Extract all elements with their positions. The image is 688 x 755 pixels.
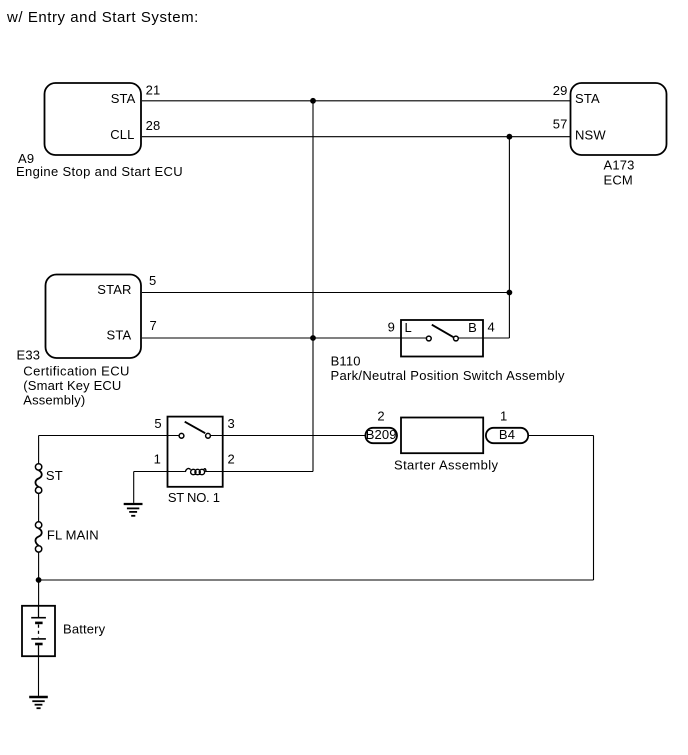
ECM A173 box xyxy=(571,83,667,155)
svg-text:5: 5 xyxy=(149,273,156,288)
svg-text:29: 29 xyxy=(553,83,568,98)
svg-text:28: 28 xyxy=(146,118,161,133)
svg-text:A173: A173 xyxy=(604,158,635,173)
svg-text:NSW: NSW xyxy=(575,127,606,142)
svg-text:21: 21 xyxy=(146,83,161,98)
wire: battery negative to ground xyxy=(38,658,40,696)
svg-text:Certification ECU: Certification ECU xyxy=(23,364,130,379)
junction: STAR wire meets vertical at x=509.4 xyxy=(507,290,513,296)
svg-text:2: 2 xyxy=(228,451,235,466)
junction: node on STA wire at x=313 xyxy=(310,98,316,104)
svg-text:STA: STA xyxy=(575,91,600,106)
fuse column vertical segments xyxy=(38,436,40,606)
svg-text:ECM: ECM xyxy=(604,172,633,187)
svg-text:B110: B110 xyxy=(331,354,361,369)
svg-text:STA: STA xyxy=(107,328,132,343)
svg-text:B4: B4 xyxy=(499,427,515,442)
wire: A9 STA(21) to A173 STA(29), net STA xyxy=(142,100,570,102)
svg-text:1: 1 xyxy=(154,451,161,466)
B110 switch right contact xyxy=(454,336,459,341)
connector B209 (starter pin 2) xyxy=(365,427,397,443)
wire: vertical from STA junction down to relay coil pin 2 xyxy=(312,101,314,472)
svg-text:Starter Assembly: Starter Assembly xyxy=(394,458,498,473)
wire: relay pin 1 to ground stub xyxy=(134,471,185,473)
svg-text:7: 7 xyxy=(150,318,157,333)
svg-text:Engine Stop and Start ECU: Engine Stop and Start ECU xyxy=(16,164,183,179)
junction: STA(7) wire meets vertical at x=313 xyxy=(310,335,316,341)
svg-text:2: 2 xyxy=(377,408,384,423)
svg-text:B: B xyxy=(468,320,477,335)
label B110 Park/Neutral Position Switch Assembly xyxy=(331,354,566,383)
B110 switch left contact xyxy=(426,336,431,341)
svg-text:(Smart Key ECU: (Smart Key ECU xyxy=(23,378,121,393)
fuse FL MAIN xyxy=(35,522,41,552)
wire: right vertical B4 drop to bottom rail xyxy=(593,436,595,581)
svg-text:5: 5 xyxy=(154,416,161,431)
svg-text:ST: ST xyxy=(46,468,63,483)
svg-text:FL MAIN: FL MAIN xyxy=(47,527,99,542)
wire: E33 STA(7) to B110 pin L(9) xyxy=(142,337,426,339)
junction: node on CLL/NSW wire at x=509.4 xyxy=(507,134,513,140)
label A9 Engine Stop and Start ECU xyxy=(16,151,183,179)
relay switch right contact xyxy=(206,433,211,438)
relay switch left contact xyxy=(179,433,184,438)
relay ST NO.1 box xyxy=(168,417,223,487)
svg-text:Battery: Battery xyxy=(63,621,106,636)
label A173 ECM xyxy=(604,158,635,188)
svg-text:STAR: STAR xyxy=(97,282,131,297)
relay switch blade xyxy=(185,422,206,434)
battery cell symbol xyxy=(31,605,46,657)
svg-text:CLL: CLL xyxy=(110,127,134,142)
wire: vertical from NSW junction down to B110 pin B xyxy=(508,137,510,338)
svg-text:B209: B209 xyxy=(366,427,397,442)
connector B4 (starter pin 1) xyxy=(486,427,528,443)
junction: battery column meets bottom rail xyxy=(36,577,42,583)
svg-text:Park/Neutral Position Switch A: Park/Neutral Position Switch Assembly xyxy=(331,368,566,383)
svg-text:9: 9 xyxy=(388,320,395,335)
wire: A9 CLL(28) to A173 NSW(57) xyxy=(142,136,570,138)
ECU E33 box xyxy=(46,275,142,359)
wire: starter B4 to right drop xyxy=(528,435,593,437)
ground: relay pin 1 xyxy=(124,504,143,516)
svg-text:L: L xyxy=(405,320,412,335)
starter assembly box xyxy=(401,418,483,454)
ECU A9 box xyxy=(45,83,142,155)
B110 switch blade xyxy=(432,325,453,337)
label E33 Certification ECU (Smart Key ECU Assembly) xyxy=(17,347,130,407)
wire: relay pin 3 to starter B209 xyxy=(210,435,365,437)
relay coil xyxy=(185,468,206,474)
svg-text:3: 3 xyxy=(228,416,235,431)
svg-text:w/ Entry and Start System:: w/ Entry and Start System: xyxy=(6,9,199,26)
fuse ST xyxy=(35,464,41,494)
wire: relay pin 2 to x=313 vertical xyxy=(205,471,313,473)
svg-text:57: 57 xyxy=(553,117,568,132)
wire: bottom rail battery to B4 drop xyxy=(39,579,594,581)
svg-text:4: 4 xyxy=(488,320,495,335)
svg-text:ST NO. 1: ST NO. 1 xyxy=(168,490,220,505)
ground: battery xyxy=(29,697,48,708)
switch B110 box xyxy=(401,320,483,357)
battery box xyxy=(22,606,55,656)
svg-text:1: 1 xyxy=(500,408,507,423)
wire: fuse column top, battery + to relay pin 5 xyxy=(39,435,179,437)
wire: E33 STAR(5) to vertical node xyxy=(142,292,509,294)
svg-text:E33: E33 xyxy=(17,347,41,362)
svg-text:Assembly): Assembly) xyxy=(23,393,85,408)
svg-text:STA: STA xyxy=(111,91,136,106)
wire: B110 pin B(4) to vertical corner xyxy=(458,337,509,339)
wire: pin1 ground drop xyxy=(133,472,135,503)
